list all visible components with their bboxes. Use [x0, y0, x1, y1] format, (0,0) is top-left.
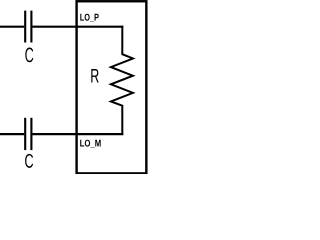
wire: left edge to capacitor C1 (net LO_P) — [0, 26, 24, 28]
pin label LO_P — [80, 14, 98, 22]
capacitor C1 (top) right plate — [30, 11, 32, 43]
capacitor C2 (bottom) left plate — [24, 118, 26, 150]
resistor R (top lead, zigzag, bottom lead) — [111, 26, 133, 135]
wire: resistor bottom to capacitor C2 (exits box at pin LO_M) — [32, 133, 123, 135]
value label C (top capacitor) — [25, 48, 33, 63]
pin label LO_M — [80, 140, 101, 148]
capacitor C1 (top) left plate — [24, 11, 26, 43]
value label C (bottom capacitor) — [25, 154, 33, 168]
capacitor C2 (bottom) right plate — [30, 118, 32, 150]
value label R (resistor) — [91, 69, 98, 83]
box: component outline — [77, 1, 147, 173]
wire: capacitor C1 to resistor top (enters box at pin LO_P) — [32, 26, 123, 28]
wire: capacitor C2 to left edge (net LO_M) — [0, 133, 24, 135]
